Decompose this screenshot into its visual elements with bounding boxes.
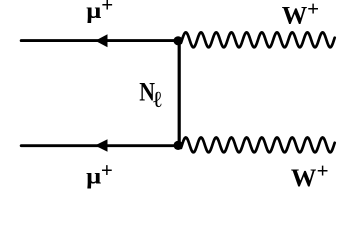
svg-text:W: W (282, 0, 308, 29)
svg-text:+: + (307, 0, 319, 20)
svg-text:ℓ: ℓ (153, 87, 162, 112)
svg-text:μ: μ (86, 0, 101, 23)
svg-text:+: + (101, 158, 113, 182)
svg-text:+: + (317, 159, 329, 183)
svg-text:W: W (291, 163, 317, 192)
svg-text:μ: μ (86, 164, 101, 189)
svg-text:+: + (101, 0, 113, 17)
